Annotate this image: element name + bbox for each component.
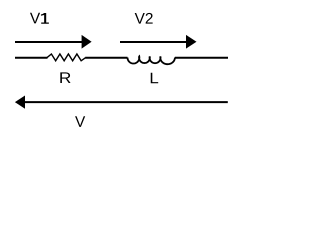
label V2 [135,13,153,24]
wire middle segment [85,57,127,59]
arrow V head [15,96,25,109]
label V [75,116,85,127]
wire left segment [15,57,48,59]
arrow V1 head [82,35,92,49]
arrow V shaft [24,101,228,103]
label R [60,72,70,83]
label L [151,73,158,84]
arrow V2 head [186,35,197,49]
resistor R [47,54,86,61]
inductor L [128,56,175,64]
arrow V1 shaft [15,41,83,43]
label V1 [30,13,40,24]
arrow V2 shaft [120,41,187,43]
wire right segment [175,57,228,59]
digit 1 of V1 (drawn) [41,13,49,24]
